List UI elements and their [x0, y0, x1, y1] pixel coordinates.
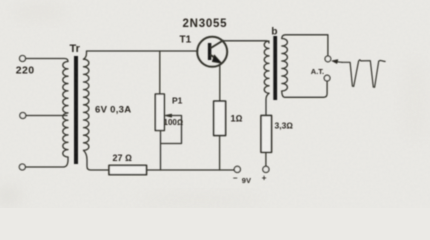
resistor 27ohm	[109, 165, 147, 174]
wire AT bottom terminal to b secondary bottom	[282, 81, 327, 97]
wire T1 collector to transformer b	[223, 41, 269, 43]
svg-text:P1: P1	[172, 96, 183, 106]
transformer b core	[273, 36, 277, 100]
resistor 1ohm	[214, 101, 226, 135]
transformer b primary winding	[264, 41, 269, 93]
paper grain overlay	[0, 0, 1, 1]
terminal 220 top	[20, 56, 26, 62]
output pulse waveform	[342, 60, 385, 88]
wire Tr secondary top to base rail	[84, 51, 198, 59]
wire terminal-top to Tr primary top	[26, 59, 68, 62]
terminal AT bottom	[324, 75, 330, 81]
bottom rail wire to -9V terminal	[147, 169, 235, 171]
svg-text:220: 220	[16, 64, 35, 76]
svg-text:2N3055: 2N3055	[183, 18, 228, 30]
svg-text:–: –	[233, 174, 238, 183]
svg-text:+: +	[262, 173, 267, 182]
transistor T1 circle	[197, 37, 227, 67]
terminal -9V	[234, 166, 240, 172]
svg-text:3,3Ω: 3,3Ω	[275, 120, 294, 130]
terminal AT top	[325, 56, 331, 62]
potentiometer P1 body	[155, 94, 164, 131]
transformer Tr secondary winding	[84, 59, 89, 150]
resistor 3.3ohm	[261, 116, 272, 153]
transistor T1 collector stroke	[211, 41, 223, 48]
svg-text:9V: 9V	[242, 176, 251, 185]
transformer Tr primary winding	[63, 62, 68, 158]
svg-text:T1: T1	[180, 35, 192, 46]
svg-text:Tr: Tr	[70, 43, 81, 55]
wire T1 emitter down to 1ohm	[219, 64, 221, 101]
svg-text:27 Ω: 27 Ω	[113, 153, 133, 163]
svg-text:6V 0,3A: 6V 0,3A	[95, 104, 131, 115]
svg-text:b: b	[271, 27, 277, 38]
transformer b secondary winding	[282, 39, 288, 92]
potentiometer P1 wiper wire to bottom lead	[161, 116, 182, 144]
potentiometer P1 wiper arrow	[165, 114, 171, 117]
transformer Tr core	[74, 56, 78, 164]
wire P1 bottom to rail	[160, 131, 162, 171]
transistor T1 emitter stroke with arrow	[211, 55, 219, 61]
wire base rail junction to P1 top	[159, 51, 161, 94]
terminal mains bottom	[19, 164, 25, 170]
wire 1ohm bottom to rail	[219, 136, 221, 171]
wire 3.3ohm top to transformer b primary bottom	[266, 93, 269, 115]
wire terminal-middle to Tr primary tap	[26, 115, 67, 117]
svg-text:1Ω: 1Ω	[231, 114, 243, 124]
wire terminal-bottom to Tr primary bottom	[25, 157, 68, 167]
wire b secondary top to AT top terminal	[282, 35, 328, 56]
svg-text:A.T.: A.T.	[311, 67, 324, 76]
transistor T1 base bar	[208, 43, 211, 60]
wire +terminal to 3.3ohm	[265, 152, 267, 166]
wire Tr secondary bottom to 27ohm	[84, 150, 110, 170]
terminal mains middle	[20, 113, 26, 119]
svg-text:100Ω: 100Ω	[164, 118, 184, 127]
arrow pointing to AT terminal	[336, 61, 342, 64]
terminal +9V	[263, 166, 269, 172]
